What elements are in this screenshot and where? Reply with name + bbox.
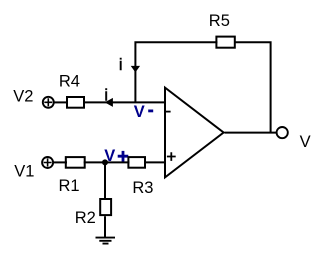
op-amp U1 — [165, 88, 224, 178]
svg-text:V1: V1 — [14, 163, 34, 181]
wire: R3 to op-amp non-inverting input — [144, 161, 165, 163]
wire: R2 to ground — [104, 216, 106, 237]
current arrow i (left) on inverting wire — [106, 99, 112, 106]
svg-text:i: i — [119, 56, 123, 74]
resistor R5 — [216, 37, 234, 48]
wire: R5 right to feedback corner down to output — [234, 42, 271, 132]
svg-text:R3: R3 — [132, 179, 153, 197]
svg-text:R4: R4 — [59, 72, 80, 90]
svg-text:V2: V2 — [13, 87, 33, 105]
wire: V+ node down to R2 — [104, 162, 106, 198]
wire: R1 to R3 through V+ node — [84, 161, 130, 163]
source terminal V1 — [42, 157, 53, 168]
junction dot V+ node — [102, 159, 108, 165]
svg-text:V: V — [134, 103, 145, 121]
plus inside V1 terminal — [44, 158, 52, 166]
source terminal V2 — [43, 97, 54, 108]
svg-text:V: V — [104, 147, 115, 165]
svg-text:R1: R1 — [59, 177, 80, 195]
op-amp minus tick — [166, 111, 171, 113]
wire: op-amp output to terminal — [225, 132, 277, 134]
resistor R1 — [66, 157, 85, 168]
wire: V1 to R1 — [53, 161, 67, 163]
svg-text:V: V — [300, 133, 311, 151]
ground — [96, 238, 116, 244]
wire: V2 to R4 — [54, 101, 68, 103]
current arrow i (down) on feedback wire — [132, 67, 139, 72]
svg-text:i: i — [104, 86, 108, 104]
svg-text:R5: R5 — [209, 12, 230, 30]
resistor R4 — [67, 97, 84, 108]
op-amp plus tick — [167, 152, 176, 161]
wire: V- node vertical up to feedback top — [135, 42, 217, 102]
svg-text:R2: R2 — [75, 209, 96, 227]
wire: R4 to op-amp inverting input — [83, 101, 165, 103]
plus inside V2 terminal — [44, 98, 52, 106]
resistor R3 — [128, 157, 145, 168]
resistor R2 — [100, 199, 111, 215]
output terminal circle — [277, 127, 288, 138]
